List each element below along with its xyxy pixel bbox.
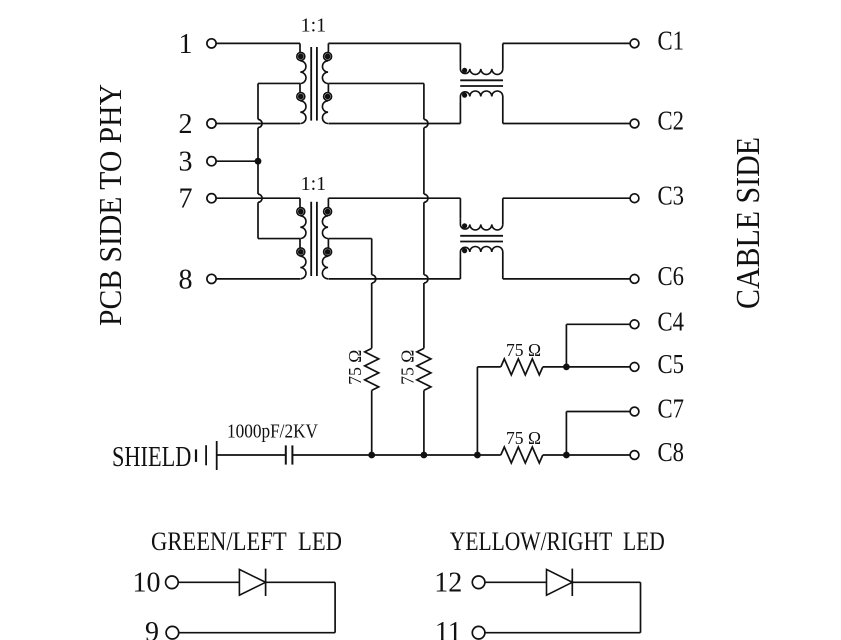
svg-text:3: 3 — [179, 147, 193, 178]
node bus at R1 — [368, 452, 375, 459]
wire pin7 to T2 primary top — [216, 197, 300, 199]
choke L1 top polarity dot — [462, 68, 467, 73]
wire node to C8 — [566, 454, 630, 456]
wire resistor R2 to bus — [423, 390, 425, 455]
wire pin2 to T1 primary bottom — [216, 123, 300, 125]
wire T2 primary center tap — [258, 238, 300, 240]
transformer T1 primary polarity dot upper — [298, 54, 304, 60]
node C8 junction — [563, 452, 570, 459]
transformer T2 secondary polarity dot lower — [325, 249, 331, 255]
resistor R1 75ohm vertical — [365, 348, 379, 390]
transformer T1 core — [310, 47, 312, 121]
pin 1 terminal — [207, 39, 216, 48]
transformer T2 primary polarity dot lower — [298, 249, 304, 255]
svg-text:1: 1 — [179, 29, 193, 60]
svg-text:75 Ω: 75 Ω — [397, 350, 417, 385]
wire diode D2 to corner — [572, 581, 640, 583]
wire pin8 to T2 primary bottom — [216, 278, 300, 280]
svg-text:1:1: 1:1 — [301, 173, 327, 195]
wire T2 secondary center tap — [328, 238, 371, 240]
wire center-tap vertical with hops — [257, 83, 259, 119]
pin 11 terminal — [472, 626, 485, 639]
svg-text:10: 10 — [133, 568, 161, 599]
wire T1 secondary top to choke L1 — [328, 42, 460, 44]
transformer T1 primary lower half winding — [299, 83, 301, 92]
svg-text:C4: C4 — [658, 306, 685, 337]
pin C3 terminal — [630, 194, 639, 203]
transformer T1 primary polarity dot lower — [298, 94, 304, 100]
transformer T1 secondary polarity dot lower — [325, 94, 331, 100]
wire capacitor to bus — [292, 454, 371, 456]
transformer T2 core — [310, 202, 312, 276]
resistor R4 75ohm horizontal — [501, 447, 543, 463]
wire branch vertical to C5 row — [476, 367, 478, 455]
wire branch to resistor R3 — [477, 366, 500, 368]
wire T2 secondary bottom to choke L2 — [328, 278, 460, 280]
svg-text:C7: C7 — [658, 393, 685, 424]
choke L2 bottom polarity dot — [462, 248, 467, 253]
wire pin3 to center-tap node — [216, 160, 258, 162]
choke L2 core — [460, 235, 503, 237]
choke L2 top polarity dot — [462, 223, 467, 228]
wire to C4 — [566, 323, 630, 325]
wire choke L1 to C2 — [503, 123, 630, 125]
transformer T1 secondary lower half winding — [327, 83, 329, 92]
svg-text:11: 11 — [435, 617, 462, 640]
svg-text:7: 7 — [179, 184, 193, 215]
pin C6 terminal — [630, 275, 639, 284]
choke L1 bottom polarity dot — [462, 93, 467, 98]
wire bus R2 to branch — [424, 454, 478, 456]
resistor R2 75ohm vertical — [417, 348, 431, 390]
wire pin12 to diode D2 — [485, 581, 547, 583]
wire T1 primary center tap — [258, 82, 300, 84]
svg-text:C1: C1 — [658, 25, 685, 56]
node C5 junction — [563, 364, 570, 371]
wire to C7 — [566, 411, 630, 413]
svg-text:C8: C8 — [658, 436, 685, 467]
transformer T2 secondary upper half winding — [327, 198, 329, 207]
transformer T2 secondary polarity dot upper — [325, 209, 331, 215]
wire T2 secondary top to choke L2 — [328, 197, 460, 199]
transformer T2 primary polarity dot upper — [298, 209, 304, 215]
choke L2 top winding — [459, 198, 461, 218]
svg-text:C5: C5 — [658, 348, 685, 379]
choke L1 top winding — [459, 43, 461, 63]
transformer T1 secondary polarity dot upper — [325, 54, 331, 60]
wire resistor R4 to node C8 — [543, 454, 567, 456]
pin 7 terminal — [207, 194, 216, 203]
svg-text:1:1: 1:1 — [301, 15, 327, 37]
svg-text:C6: C6 — [658, 260, 685, 291]
shield terminal tick — [195, 449, 197, 462]
wire resistor R3 to node C5 — [543, 366, 567, 368]
wire pin10 to diode D1 — [178, 581, 239, 583]
svg-text:8: 8 — [179, 264, 193, 295]
svg-text:C3: C3 — [658, 179, 685, 210]
wire diode D1 to corner — [266, 581, 336, 583]
wire D2 corner down — [640, 582, 642, 632]
choke L1 core — [460, 79, 503, 81]
wire choke L1 to C1 — [503, 42, 630, 44]
shield terminal bar tall — [216, 441, 218, 470]
pin C1 terminal — [630, 39, 639, 48]
diode D1 green/left LED — [239, 569, 265, 595]
wire V2 vertical with hops — [423, 83, 425, 119]
pin 12 terminal — [472, 576, 485, 589]
wire node up to C4 row — [565, 324, 567, 367]
transformer T1 primary upper half winding — [299, 43, 301, 52]
pin 8 terminal — [207, 274, 216, 283]
svg-text:GREEN/LEFT LED: GREEN/LEFT LED — [151, 526, 342, 556]
choke L2 bottom winding — [459, 258, 461, 279]
node pin3 junction — [255, 158, 262, 165]
node bus at branch — [474, 452, 481, 459]
pin C7 terminal — [630, 407, 639, 416]
pin 9 terminal — [166, 626, 179, 639]
capacitor C9 1000pF/2KV — [285, 445, 287, 464]
svg-text:75 Ω: 75 Ω — [345, 350, 365, 385]
transformer T2 primary upper half winding — [299, 198, 301, 207]
svg-text:1000pF/2KV: 1000pF/2KV — [227, 421, 318, 443]
wire bus R1 to R2 — [372, 454, 424, 456]
wire node up to C7 row — [565, 412, 567, 456]
pin 3 terminal — [207, 157, 216, 166]
transformer T2 secondary lower half winding — [327, 239, 329, 248]
svg-text:2: 2 — [179, 109, 193, 140]
wire to pin11 — [485, 632, 641, 634]
wire T1 secondary center tap — [328, 82, 424, 84]
svg-text:CABLE SIDE: CABLE SIDE — [730, 137, 767, 309]
pin 2 terminal — [207, 119, 216, 128]
diode D2 yellow/right LED — [547, 569, 573, 595]
wire choke L2 to C6 — [503, 278, 630, 280]
svg-text:12: 12 — [434, 568, 462, 599]
wire to pin9 — [178, 632, 335, 634]
svg-text:SHIELD: SHIELD — [112, 442, 191, 473]
pin C4 terminal — [630, 320, 639, 329]
svg-text:75 Ω: 75 Ω — [506, 428, 541, 448]
wire choke L2 to C3 — [503, 197, 630, 199]
wire bus branch to resistor R4 — [477, 454, 500, 456]
svg-text:C2: C2 — [658, 105, 685, 136]
pin 10 terminal — [166, 576, 179, 589]
node bus at R2 — [421, 452, 428, 459]
transformer T2 primary lower half winding — [299, 239, 301, 248]
choke L1 bottom winding — [459, 103, 461, 124]
resistor R3 75ohm horizontal — [501, 359, 543, 375]
wire D1 corner down — [334, 582, 336, 632]
pin C8 terminal — [630, 451, 639, 460]
wire node to C5 — [566, 366, 630, 368]
shield terminal bar short — [205, 445, 207, 465]
svg-text:75 Ω: 75 Ω — [506, 340, 541, 360]
wire V1 vertical with hop — [371, 239, 373, 275]
pin C2 terminal — [630, 119, 639, 128]
transformer T1 secondary upper half winding — [327, 43, 329, 52]
wire shield to capacitor C9 — [217, 454, 286, 456]
svg-text:9: 9 — [145, 617, 159, 640]
wire T1 secondary bottom to choke L1 — [328, 123, 460, 125]
pin C5 terminal — [630, 363, 639, 372]
wire pin1 to T1 primary top — [216, 42, 300, 44]
wire resistor R1 to bus — [371, 390, 373, 455]
svg-text:YELLOW/RIGHT LED: YELLOW/RIGHT LED — [450, 526, 665, 556]
svg-text:PCB SIDE TO PHY: PCB SIDE TO PHY — [92, 84, 128, 326]
